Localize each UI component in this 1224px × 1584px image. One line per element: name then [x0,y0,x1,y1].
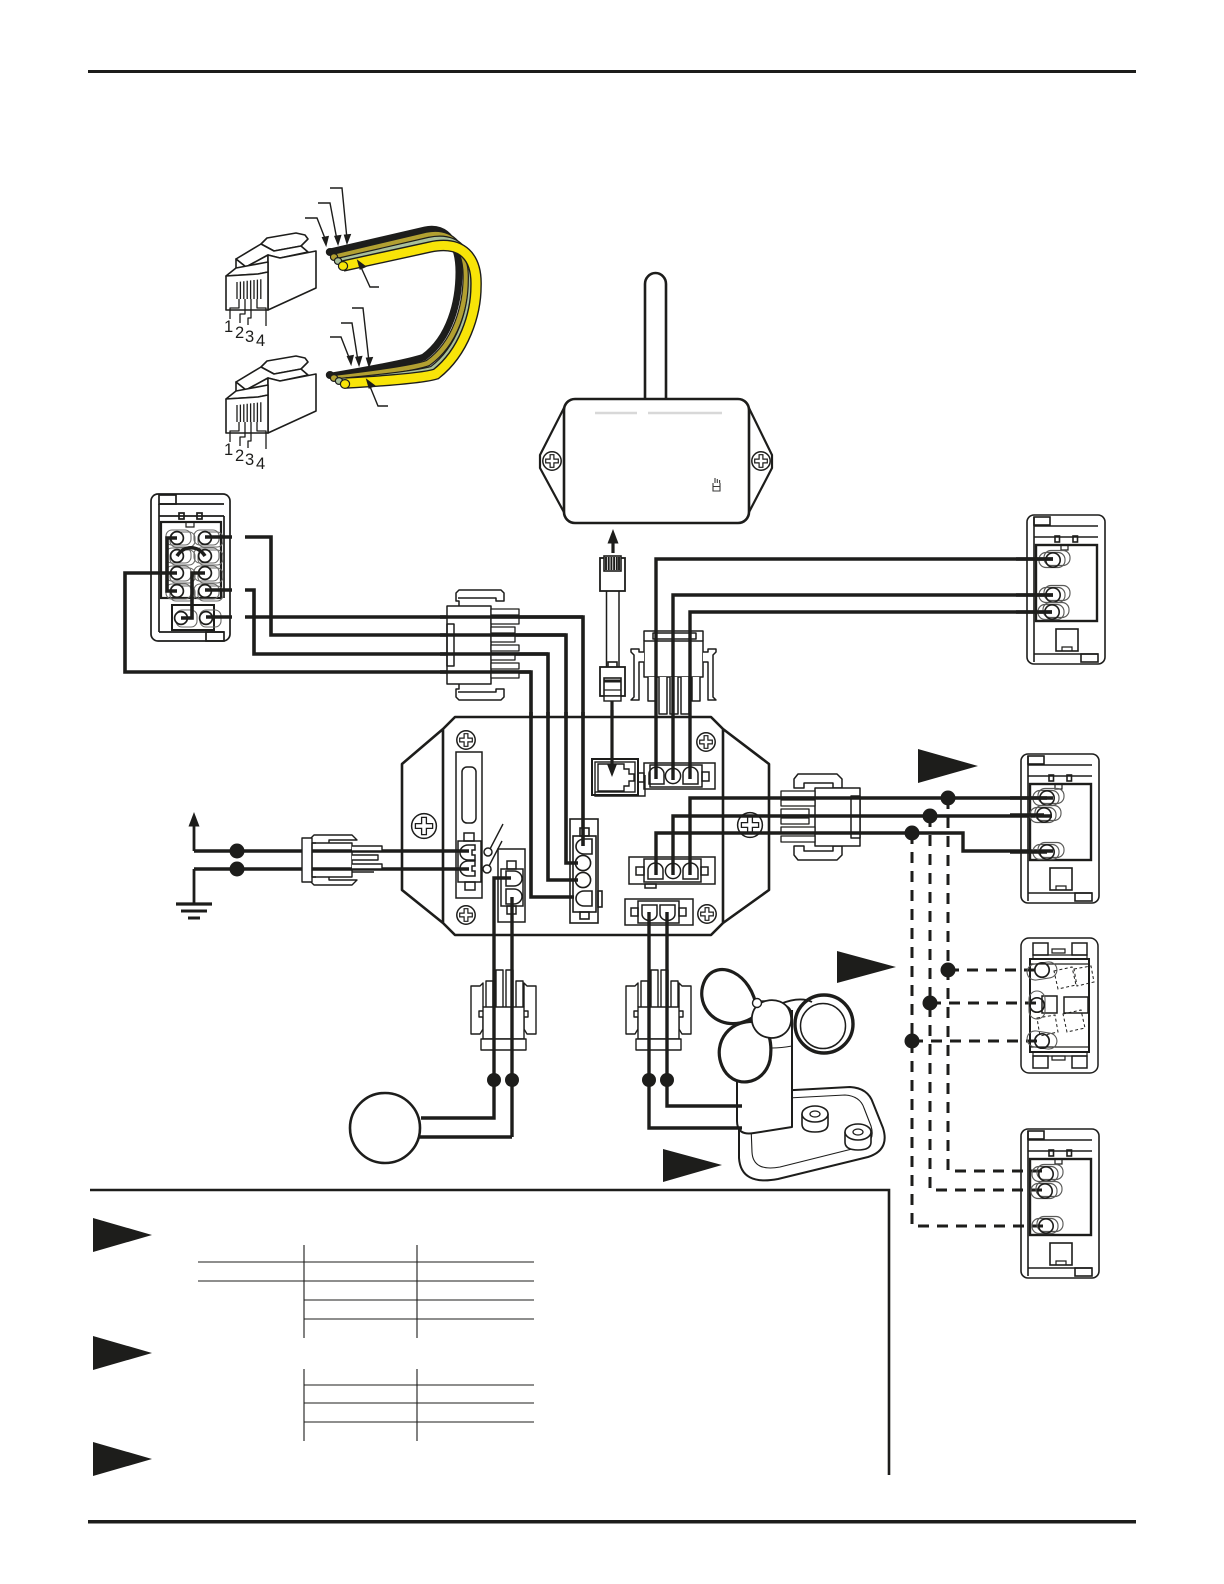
sage conductor [338,239,471,381]
upper plug body [600,558,625,591]
black conductor [330,229,459,376]
yellow conductor [343,245,476,383]
svg-text:2: 2 [235,324,244,342]
notes table 1 [198,1245,534,1338]
wire W2: TB1 row3-left to unit 4-pin pin4 [125,573,574,897]
top latch wing [456,590,504,606]
dashed wire: branch to sensor block screw 2 [930,1002,1037,1005]
dashed seats [1037,966,1094,1036]
leader to wire 1 [305,218,326,241]
fingers [491,609,519,678]
prongs [486,970,523,1007]
junction dot J1 [941,791,956,806]
wire: TB1 wires inside unit down to 4-pin connector [531,712,583,897]
page top rule [88,70,1136,73]
note marker triangle B [837,951,896,983]
latch tab [261,233,308,251]
bottom latch wing [794,846,842,860]
petal top-left [702,970,757,1024]
junction dot J5 [923,996,938,1011]
wire: to remote sensor [419,1135,512,1138]
dashed wire: J2 down to wall plate 3 screw 2 [930,816,1045,1190]
top latch wing [794,774,842,788]
pin leader lines [230,299,266,326]
internal jumper straps [167,538,205,618]
body [815,788,860,846]
arrow into RJ jack [610,710,613,765]
wire: unit mid 3-pin pin3 to wall plate 2 screw 1 [690,798,1053,875]
wire W4: TB1 row4-right to unit 4-pin pin3 [205,590,578,880]
fingers [781,791,815,842]
junction dot J3 [905,826,920,841]
screws [171,532,213,625]
wire W5: TB1 row5-right to unit 4-pin pin1 [206,617,583,846]
body [483,1007,524,1039]
note marker triangle C [663,1149,722,1182]
ground symbol [193,869,196,903]
wire: unit sensor connector pin2 down [510,897,513,1137]
junction dot J8 [505,1073,519,1087]
note marker triangle D [93,1218,152,1252]
svg-text:4: 4 [256,332,265,350]
screw seats rows 1-4 (2 cols) [166,530,223,627]
wire: unit 3-pin pin1 to wall plate 1 screw 1 [656,559,1053,779]
body right side face [268,251,316,310]
pin numbers [224,318,265,350]
left mounting ear [540,404,566,516]
upper housing front face [236,259,246,294]
left 2-pin connector with tabs [458,833,481,890]
base plate [739,1087,885,1180]
hub [752,1000,791,1038]
bottom fingers [648,677,700,714]
row5 sub box [172,605,214,630]
wire W1: TB1 row1-right to unit 4-pin pin2 [205,537,578,863]
row3col2 down to row5col1 strap [181,573,205,618]
upper housing inner face [246,255,268,294]
ear screws [543,452,561,470]
wire down to unit RJ jack [610,701,613,762]
mounting posts [802,1106,871,1150]
junction dot J9 [642,1073,656,1087]
wire tip caps top bundle [326,249,347,271]
link hub to ring [780,999,812,1004]
wire: unit mid 3-pin pin2 to wall plate 2 screw 2 [673,816,1052,875]
wire: unit 2-pin pin2 to outdoor sensor [667,912,742,1106]
octagon outline with side flanges [402,717,769,935]
notes table 2 [304,1369,534,1441]
wire break artifacts at TB1 right edge [232,533,245,621]
dashed wire: branch to sensor block screw 3 [912,1040,1042,1043]
note marker triangle E [93,1336,152,1370]
center 4-pin connector [570,819,602,923]
note marker triangle A [918,749,978,783]
right latch wing [703,649,716,700]
module box [564,399,749,523]
screws [1026,961,1058,1050]
wire tip caps bottom bundle [326,372,349,389]
flange screws [412,814,437,839]
left latch wing [631,649,644,700]
lower plug [608,662,617,686]
page bottom rule [88,1520,1136,1524]
dashed wire: branch to sensor block screw 1 [948,969,1042,972]
junction dot J7 [487,1073,501,1087]
body top-left face [226,262,268,276]
right wing [524,983,536,1034]
body front contact face [226,272,268,310]
junction dot J2 [923,809,938,824]
petal bottom-left [719,1021,771,1082]
olive conductor [334,234,466,378]
wire: unit 3-pin pin2 to wall plate 1 screw 2 [673,595,1053,780]
arrow up to module [611,542,614,553]
corner screws [457,731,475,749]
upper housing top face [236,244,308,267]
leader to wire 2 [318,203,337,240]
svg-text:1: 1 [224,318,233,336]
redraw TB1 wires across connector [440,617,583,672]
LED slot panel [456,752,482,898]
junction dot J6 [905,1034,920,1049]
wire: unit mid 3-pin pin1 to wall plate 2 screw 3 [656,833,1053,875]
bottom latch wing [456,684,504,700]
notes box border [90,1190,889,1475]
wire: unit 2-pin pin1 to outdoor sensor [649,912,742,1128]
wire: unit 3-pin pin3 to wall plate 1 screw 3 [690,612,1052,779]
switch symbol [483,824,503,873]
junction dot J10 [660,1073,674,1087]
row2 curved jumper [177,548,205,556]
bottom 2-pin connector [625,899,693,925]
right ring [795,995,853,1053]
junction dot J4 [941,963,956,978]
faint label strips [595,412,722,414]
dashed wire: J3 down to wall plate 3 screw 3 [912,833,1046,1226]
dashed wire: J1 down to wall plate 3 screw 1 [948,798,1046,1171]
leader to yellow wire [360,265,379,287]
small 2-pin connector (sensor) [498,849,525,922]
left wing [471,983,483,1034]
row1col1 to row4col1 strap [167,538,177,591]
contacts [237,279,261,299]
antenna [645,273,666,400]
svg-text:3: 3 [245,328,254,346]
small hand icon [713,478,720,491]
mid-right 3-pin connector [629,857,715,888]
RJ jack in unit [592,759,645,796]
cord [607,591,620,668]
wire: unit sensor connector pin1 to remote sensor [421,878,511,1118]
body [447,606,491,684]
vertical body [737,1010,792,1134]
leader to wire 3 [330,188,347,239]
note marker triangle F [93,1442,152,1476]
top 3-pin connector [644,763,715,789]
right mounting ear [747,404,772,516]
